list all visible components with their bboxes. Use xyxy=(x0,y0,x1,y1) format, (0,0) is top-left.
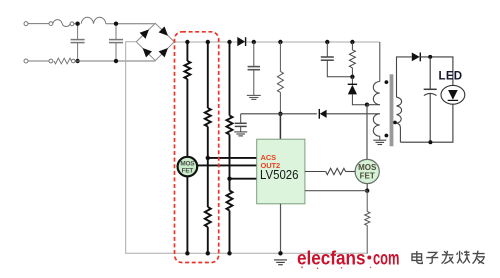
wire to transformer primary xyxy=(379,42,381,82)
bridge diode D-LL xyxy=(143,48,152,57)
bridge diode D-UR xyxy=(159,26,168,35)
node bottom 2 xyxy=(206,251,210,255)
svg-text:LED: LED xyxy=(439,71,463,83)
diode D4 xyxy=(412,53,420,62)
transformer T1 primary lower xyxy=(373,114,379,136)
wire primary to ground xyxy=(379,136,381,140)
node xyxy=(75,59,79,63)
svg-text:FET: FET xyxy=(182,167,194,174)
fuse F1 xyxy=(49,20,76,27)
wire vcc row xyxy=(241,113,317,115)
node xyxy=(114,59,118,63)
wire pin 3 xyxy=(230,178,257,180)
node IC ground xyxy=(278,251,282,255)
wire xyxy=(28,60,49,62)
wire xyxy=(28,23,49,25)
transformer T1 core xyxy=(390,74,394,146)
node bottom 3 xyxy=(227,251,231,255)
wire IC top pin xyxy=(279,114,281,139)
AC terminal N xyxy=(24,59,28,63)
diode D2 xyxy=(318,109,320,119)
MOSFET Q1 xyxy=(178,157,198,177)
wire gate 2 xyxy=(346,171,356,173)
capacitor C3 xyxy=(321,42,353,77)
wire source xyxy=(366,184,368,191)
ground C1 xyxy=(247,95,261,99)
node A xyxy=(185,40,189,44)
node snubber xyxy=(350,75,354,79)
MOSFET Q2 xyxy=(355,159,379,183)
svg-text:FET: FET xyxy=(360,172,375,181)
node source xyxy=(365,189,369,193)
wire primary tap xyxy=(367,104,380,106)
AC terminal L xyxy=(24,22,28,26)
wire IC bottom pin xyxy=(280,204,282,254)
capacitor C4 xyxy=(424,57,437,142)
logo chinese 发 xyxy=(442,251,454,264)
ground T1 xyxy=(373,140,386,144)
wire xyxy=(106,23,156,25)
capacitor CX2 xyxy=(109,26,123,59)
wire D4 to LED xyxy=(420,57,453,86)
diode D3 xyxy=(351,77,353,85)
node ACS xyxy=(206,156,210,160)
wire MOSFET drain xyxy=(366,105,368,160)
resistor R5 xyxy=(349,42,355,77)
logo chinese 电 xyxy=(412,251,422,263)
logo splatter xyxy=(301,266,303,268)
logo chinese 友 xyxy=(473,251,485,264)
node bottom 1 xyxy=(185,251,189,255)
capacitor C1 xyxy=(248,42,260,95)
wire to primary aux xyxy=(327,113,380,115)
wire secondary top xyxy=(397,57,412,97)
polarity dot secondary xyxy=(393,121,397,125)
wire DC return xyxy=(126,42,188,254)
diode D1 xyxy=(237,37,245,46)
ground C2 xyxy=(234,132,247,136)
node R4 top xyxy=(278,40,282,44)
polarity dot primary xyxy=(385,80,389,84)
resistor R6 xyxy=(326,168,346,174)
wire IC sense xyxy=(305,190,367,192)
node R5 top xyxy=(350,40,354,44)
bridge rectifier BR1 xyxy=(136,23,174,60)
node C4 top xyxy=(428,55,432,59)
node C4 bottom xyxy=(428,140,432,144)
wire xyxy=(75,60,155,62)
node drain xyxy=(365,103,369,107)
resistor fusible xyxy=(49,59,53,63)
svg-text:LV5026: LV5026 xyxy=(260,168,299,182)
node xyxy=(75,22,79,26)
node pin3 xyxy=(227,177,231,181)
wire gate xyxy=(305,171,326,173)
resistor R3 chain xyxy=(227,42,233,253)
wire output top xyxy=(411,56,413,58)
ground IC xyxy=(274,260,287,265)
wire pin OUT2 xyxy=(197,164,257,166)
node C xyxy=(227,40,231,44)
wire pin ACS xyxy=(208,157,257,159)
bridge diode D-LR xyxy=(159,48,168,57)
node D1 cathode xyxy=(252,40,256,44)
wire secondary bottom xyxy=(397,123,401,142)
capacitor CX1 xyxy=(71,26,85,59)
node C3 top xyxy=(325,40,329,44)
node B xyxy=(206,40,210,44)
transformer T1 secondary xyxy=(397,97,402,123)
logo chinese 烧 xyxy=(457,251,470,264)
bridge diode D-UL xyxy=(140,29,149,38)
IC U1 LV5026 xyxy=(257,139,305,204)
svg-text:MOS: MOS xyxy=(358,163,377,172)
node VCC xyxy=(278,112,282,116)
svg-text:elecfans: elecfans xyxy=(297,248,366,269)
polarity dot primary lower xyxy=(385,134,389,138)
resistor R1 chain xyxy=(184,42,190,253)
resistor R2 chain xyxy=(205,42,211,253)
logo chinese 子 xyxy=(426,252,438,263)
resistor R7 xyxy=(365,191,370,254)
LED DL1 xyxy=(441,85,465,104)
wire LED bottom xyxy=(400,104,453,142)
wire DC+ rail xyxy=(174,41,379,43)
wire bottom rail xyxy=(187,252,368,254)
capacitor C2 xyxy=(235,114,247,132)
node xyxy=(114,22,118,26)
resistor R4 xyxy=(277,42,283,114)
transformer T1 primary upper xyxy=(373,82,379,105)
svg-text:com: com xyxy=(373,248,400,269)
inductor L1 xyxy=(81,17,106,23)
dashed current-sense box xyxy=(175,32,219,263)
